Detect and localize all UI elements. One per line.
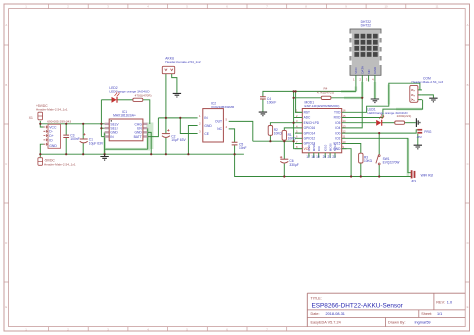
wire IC2 OUT 3V3 <box>229 121 294 141</box>
wire RST rail A <box>263 91 356 96</box>
ground LED1 rotated <box>416 118 420 127</box>
svg-text:10: 10 <box>343 140 346 144</box>
svg-text:Ingmar59: Ingmar59 <box>415 320 431 324</box>
svg-text:CS0: CS0 <box>307 145 311 151</box>
svg-text:BATT: BATT <box>134 135 142 139</box>
svg-text:REV:: REV: <box>436 300 445 304</box>
svg-text:B: B <box>467 83 469 87</box>
svg-text:B: B <box>5 83 7 87</box>
resistor R3 <box>359 153 373 163</box>
wire C5 column <box>229 129 235 154</box>
wire 3V3 spine <box>294 91 303 148</box>
svg-text:D: D <box>467 241 469 245</box>
svg-text:IO5: IO5 <box>335 121 340 125</box>
wire GND rail H2 <box>40 153 244 155</box>
wire GND net highlight below IC1 <box>105 132 150 154</box>
junction GND rail at ground symbol <box>104 153 106 155</box>
wire R1 to GPIO16 <box>284 128 295 141</box>
svg-text:10µF 63V: 10µF 63V <box>89 141 104 145</box>
svg-text:10: 10 <box>384 5 388 9</box>
svg-text:GND: GND <box>373 66 377 74</box>
svg-text:TITLE:: TITLE: <box>311 296 322 300</box>
wire rail B to R4 <box>294 97 363 99</box>
wire R2 to EN <box>270 123 295 142</box>
svg-text:E: E <box>467 305 469 309</box>
svg-text:ID: ID <box>49 138 53 142</box>
wire X1 GND pin to GND rail <box>40 144 43 154</box>
svg-text:220Ω(221): 220Ω(221) <box>397 114 412 118</box>
svg-text:RST: RST <box>304 111 310 115</box>
jumper JP2 <box>417 129 432 139</box>
svg-text:CE: CE <box>204 132 209 136</box>
svg-text:IO0: IO0 <box>335 131 340 135</box>
wire R3 column <box>347 144 361 177</box>
junction SELI node <box>100 127 102 129</box>
header COM 1x3 <box>410 77 444 103</box>
svg-text:IO10: IO10 <box>323 144 327 151</box>
svg-text:JP2: JP2 <box>417 135 423 139</box>
ground main <box>100 154 108 160</box>
svg-text:Header-Female-2.54_1x2: Header-Female-2.54_1x2 <box>165 60 201 64</box>
junction rail C at R3 <box>360 175 362 177</box>
svg-text:A: A <box>5 23 7 27</box>
svg-text:Header-Male-2.54_1x1: Header-Male-2.54_1x1 <box>36 108 68 112</box>
capacitor C1 <box>80 133 104 145</box>
wire RXD to COM <box>347 100 423 118</box>
junction IO0 at SW1 <box>378 132 380 134</box>
node X1 label <box>29 116 33 120</box>
svg-text:JP1: JP1 <box>411 179 417 183</box>
junction GND rail at C3 <box>65 153 67 155</box>
svg-text:4.7KΩ(4701): 4.7KΩ(4701) <box>317 90 334 94</box>
svg-text:13: 13 <box>343 124 346 128</box>
svg-text:X1: X1 <box>29 116 33 120</box>
svg-text:Drawn By:: Drawn By: <box>388 320 406 324</box>
ground AKKU <box>173 93 181 97</box>
svg-text:A: A <box>467 23 469 27</box>
junction 3V3 at R2 <box>269 140 271 142</box>
junction rail C at SW1 <box>378 175 380 177</box>
wire +5V rail H1 <box>40 123 104 125</box>
svg-text:GPIO16: GPIO16 <box>304 126 316 130</box>
svg-text:NC: NC <box>217 127 222 131</box>
junction GND rail at X1 <box>39 153 41 155</box>
svg-text:VCC: VCC <box>354 67 358 74</box>
junction 3V3 at R1 <box>283 140 285 142</box>
svg-text:18: 18 <box>311 155 315 159</box>
svg-text:EasyEDA V5.7.24: EasyEDA V5.7.24 <box>311 320 341 324</box>
svg-text:10µF 63V: 10µF 63V <box>171 138 186 142</box>
ground COM <box>429 98 437 102</box>
svg-text:11: 11 <box>436 5 439 9</box>
svg-text:1/1: 1/1 <box>437 312 442 316</box>
svg-text:10nF: 10nF <box>239 146 247 150</box>
capacitor C5 <box>232 142 247 150</box>
wire X1 VCC pin to +5V node <box>40 124 43 127</box>
junction GND rail at IC2 <box>187 153 189 155</box>
junction C3 top <box>65 123 67 125</box>
wire IO2 to JP1 <box>347 138 411 172</box>
svg-text:IO2: IO2 <box>335 137 340 141</box>
wire SW1 column <box>378 133 380 176</box>
resistor R4 4.7K <box>317 87 334 100</box>
svg-text:GND: GND <box>204 124 212 128</box>
svg-text:MISO: MISO <box>312 143 316 151</box>
svg-text:IO9: IO9 <box>317 146 321 151</box>
svg-text:Header-Male-2.54_1x1: Header-Male-2.54_1x1 <box>44 162 76 166</box>
wire MOD1 GND to rail <box>342 149 351 177</box>
wire COM pin2 ground <box>422 95 434 98</box>
wire highlight COM lower path <box>389 85 422 110</box>
wire C3 column <box>65 124 67 154</box>
svg-text:GND: GND <box>49 144 57 148</box>
svg-text:470Ω(470R): 470Ω(470R) <box>135 93 152 97</box>
junction GND rail at C5 <box>234 153 236 155</box>
svg-text:22: 22 <box>332 155 336 159</box>
module MOD1 ESP-12F <box>295 101 347 160</box>
svg-text:GPIO12: GPIO12 <box>304 137 316 141</box>
svg-text:GPIO14: GPIO14 <box>304 131 316 135</box>
connector X1 690-005-299-043 <box>44 120 72 149</box>
svg-text:IO4: IO4 <box>335 126 340 130</box>
resistor R1 <box>282 130 296 140</box>
header AKKU female 1x2 <box>162 56 201 73</box>
capacitor C6 <box>280 156 299 167</box>
IC IC1 MAX1811ESA+ battery charger <box>105 110 148 141</box>
svg-text:ESP8266-DHT22-AKKU-Sensor: ESP8266-DHT22-AKKU-Sensor <box>312 303 404 310</box>
voltage regulator IC2 XC6210B332MR <box>199 101 235 142</box>
header +5V/DC <box>36 104 68 120</box>
svg-text:330µF: 330µF <box>289 163 298 167</box>
jumper JP1 <box>411 170 433 183</box>
svg-text:EVQ2270W: EVQ2270W <box>383 161 400 165</box>
wire -5V header pin <box>39 154 41 157</box>
wire highlight JP1 vertical <box>407 138 410 176</box>
svg-text:Header-Male-2.54_1x3: Header-Male-2.54_1x3 <box>412 80 444 84</box>
wire LED2 anode <box>101 99 111 101</box>
wire C2 column <box>165 118 167 154</box>
svg-text:1.0: 1.0 <box>447 300 452 304</box>
capacitor C4 <box>260 97 276 105</box>
svg-text:21: 21 <box>328 155 332 159</box>
resistor 220R LED1 series <box>395 114 412 124</box>
LED LED2 <box>109 86 150 103</box>
capacitor C2 <box>162 129 187 142</box>
svg-text:ADC: ADC <box>304 116 311 120</box>
wire IC1 input vertical <box>101 100 104 137</box>
ground DHT22 <box>371 99 379 103</box>
wire DHT22 pin4 ground <box>374 82 376 99</box>
junction rail C at C6 <box>283 175 285 177</box>
wire IC1 EN drop <box>105 128 148 149</box>
wire IC2 CE tie <box>180 118 197 134</box>
wire RST vertical <box>296 91 303 112</box>
title block <box>307 293 465 326</box>
svg-text:E: E <box>5 305 7 309</box>
wire DHT22 DATA to IO4 <box>347 82 363 128</box>
svg-text:WiFi Rst: WiFi Rst <box>421 174 434 178</box>
svg-text:DHT22: DHT22 <box>361 24 372 28</box>
svg-text:Date:: Date: <box>311 312 320 316</box>
resistor 470R LED2 series <box>133 93 152 101</box>
junction 3V7 rail at C2 <box>165 117 167 119</box>
svg-text:MOSI: MOSI <box>328 143 332 151</box>
junction GND rail at C2 <box>165 153 167 155</box>
svg-text:RXD: RXD <box>334 116 341 120</box>
junction rail C at MOD1 GND <box>350 175 352 177</box>
wire LED1 to R220 <box>382 122 395 124</box>
junction rail A at spine <box>293 90 295 92</box>
junction rail B at spine <box>293 97 295 99</box>
wire +5V header pin drop <box>39 121 41 124</box>
junction rail A at RST <box>295 90 297 92</box>
switch SW1 <box>376 155 400 165</box>
capacitor C3 <box>63 134 79 142</box>
junction GND rail at C1 <box>82 153 84 155</box>
ground JP2 <box>414 145 422 149</box>
svg-text:100nF: 100nF <box>70 137 79 141</box>
svg-text:ESP-12F(ESP8266MOD): ESP-12F(ESP8266MOD) <box>305 104 340 108</box>
svg-text:17: 17 <box>306 155 310 159</box>
svg-text:C: C <box>467 162 469 166</box>
svg-text:EN/CH-PD: EN/CH-PD <box>304 121 320 125</box>
junction SELV node <box>100 123 102 125</box>
svg-text:20: 20 <box>323 155 327 159</box>
svg-text:MAX1811ESA+: MAX1811ESA+ <box>113 114 136 118</box>
junction rail B at DATA <box>361 97 363 99</box>
header -5V/DC <box>38 158 76 167</box>
svg-text:14: 14 <box>343 119 346 123</box>
svg-text:10KΩ: 10KΩ <box>364 159 373 163</box>
wire IO5 to LED1 <box>347 122 377 124</box>
wire IC1 GND-left drop <box>104 132 106 154</box>
wire IC2 GND to rail <box>188 126 197 155</box>
junction spine at EN <box>293 122 295 124</box>
junction C1 top <box>82 123 84 125</box>
resistor R2 <box>268 126 282 136</box>
wire C1 column <box>82 124 84 154</box>
LED LED1 <box>368 108 409 126</box>
svg-text:SCLK: SCLK <box>333 143 337 151</box>
wire IO0 to JP2 <box>347 130 418 133</box>
svg-text:12: 12 <box>343 130 346 134</box>
svg-text:OUT: OUT <box>215 120 222 124</box>
wire IC1 GND-right drop <box>148 132 152 154</box>
wire DHT22 pin1 <box>355 82 357 92</box>
wire GND net highlight at IC1 right <box>146 123 153 150</box>
ground C4 <box>259 112 267 116</box>
svg-text:C: C <box>5 162 7 166</box>
svg-text:690-005-299-043: 690-005-299-043 <box>47 120 71 124</box>
junction GND rail at IC1 <box>150 153 152 155</box>
wire JP2 to ground <box>417 134 419 145</box>
svg-text:TXD: TXD <box>334 111 341 115</box>
wire ADC stub <box>294 117 303 119</box>
svg-text:PRG: PRG <box>424 130 432 134</box>
svg-text:19: 19 <box>316 155 320 159</box>
svg-text:10KΩ: 10KΩ <box>274 132 283 136</box>
wire C6 column <box>283 141 285 176</box>
wire AKKU pin1 <box>165 74 167 118</box>
wire R220 to ground bar <box>405 122 416 124</box>
svg-text:100nF: 100nF <box>267 101 276 105</box>
junction 3V7 rail at CE <box>179 117 181 119</box>
svg-text:Sheet:: Sheet: <box>421 312 432 316</box>
svg-text:NC: NC <box>367 69 371 74</box>
svg-text:15: 15 <box>343 114 346 118</box>
wire C4 ground stub <box>262 99 264 112</box>
wire LED2 cathode to R470 <box>117 99 133 101</box>
wire AKKU pin2 to ground <box>172 74 177 93</box>
svg-text:DATA: DATA <box>360 65 364 74</box>
sensor DHT22 <box>349 20 382 82</box>
wire TXD to COM <box>347 83 420 112</box>
svg-text:16: 16 <box>343 109 346 113</box>
wire GND rail C <box>235 154 411 176</box>
junction 3V3 at spine <box>293 140 295 142</box>
wire R470 to CHG <box>143 100 150 124</box>
svg-text:2018-08-31: 2018-08-31 <box>326 312 345 316</box>
wire BATT to 3V7 rail <box>148 118 198 137</box>
wire highlight DHT22 area <box>341 82 375 99</box>
svg-text:D: D <box>5 241 7 245</box>
junction +5V node <box>39 123 41 125</box>
